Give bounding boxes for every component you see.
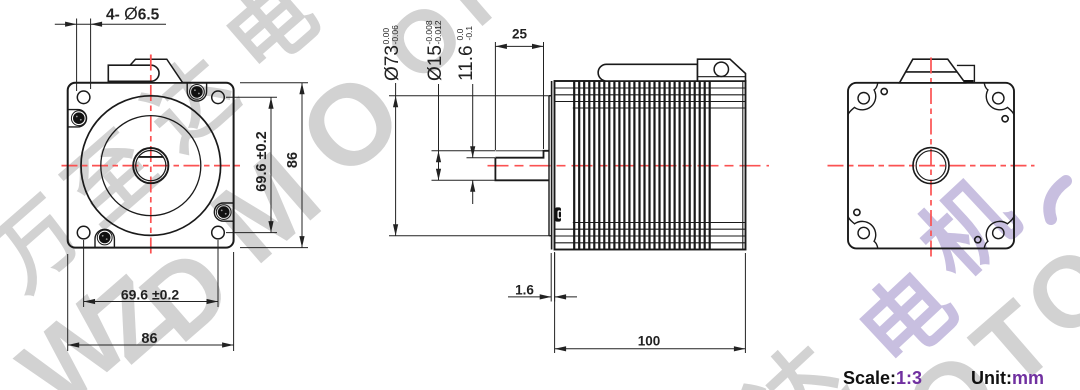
watermark purple curve fragment	[1049, 181, 1066, 219]
dim 69.6 right line	[270, 97, 272, 232]
svg-text:-0.012: -0.012	[433, 20, 443, 44]
dim D73 line	[395, 83, 397, 236]
side dimension arrows	[393, 44, 745, 352]
dim 1.6 extension lines	[550, 253, 552, 302]
rear connector seam	[906, 71, 957, 73]
watermark WZD and TOO letters	[0, 224, 1080, 390]
dim 11.6 extension line	[467, 157, 496, 159]
dim 4-D6.5 line	[55, 23, 166, 25]
shaft silhouette line behind flat	[495, 150, 543, 152]
rear screw bottom-left	[854, 209, 860, 215]
cooling ribs	[574, 81, 710, 250]
connector hole	[714, 62, 728, 76]
svg-text:100: 100	[638, 334, 661, 349]
dim 86 right extension lines	[240, 82, 308, 84]
rear view centerlines	[828, 58, 1035, 259]
screw top-right	[190, 85, 205, 100]
corner pocket top-left	[848, 83, 878, 115]
dim 86 bottom line	[68, 344, 234, 346]
centerline horizontal front	[62, 165, 241, 167]
connector bracket front	[129, 59, 182, 83]
front dimension texts	[106, 4, 301, 348]
svg-text:86: 86	[141, 331, 157, 347]
screw pocket bottom-left	[95, 229, 114, 247]
dim 25 extension lines	[494, 42, 496, 150]
mounting hole bottom-left	[77, 226, 90, 239]
pilot boss face	[549, 96, 552, 236]
svg-text:Ø73: Ø73	[382, 45, 403, 81]
svg-text:1.6: 1.6	[515, 283, 534, 298]
rear screw bottom-right	[975, 237, 981, 243]
dim 69.6 bottom extension lines	[83, 240, 85, 307]
dim 25 line	[495, 45, 543, 47]
flange plate	[551, 81, 553, 250]
dim text 11.6	[455, 26, 477, 81]
corner pocket top-right	[984, 83, 1014, 115]
rear screw top-left	[881, 88, 887, 94]
svg-text:4- Ø6.5: 4- Ø6.5	[106, 4, 160, 24]
svg-text:69.6 ±0.2: 69.6 ±0.2	[254, 131, 270, 191]
mounting hole top-left	[77, 91, 90, 104]
scale and unit labels	[843, 368, 1044, 388]
front view centerlines	[62, 55, 241, 258]
screw pocket top-left	[68, 110, 87, 127]
svg-text:11.6: 11.6	[456, 45, 477, 81]
centerline vertical front	[150, 55, 152, 258]
screw top-left	[71, 111, 86, 126]
screw pocket top-right	[187, 83, 206, 101]
front dimension arrows	[65, 22, 305, 348]
svg-text:Unit:mm: Unit:mm	[971, 368, 1044, 388]
dim 100 line	[555, 348, 746, 350]
body band lines	[555, 81, 746, 250]
wire clip on flange	[555, 207, 561, 221]
watermark chinese characters gray row	[0, 0, 335, 309]
dim D73 extension lines	[389, 95, 551, 97]
centerline horizontal side	[488, 165, 770, 167]
front flange square	[68, 83, 234, 248]
screw bottom-right	[216, 205, 231, 220]
connector box side	[698, 59, 746, 81]
rear connector trapezoid	[900, 59, 966, 83]
connector tube side	[598, 64, 697, 81]
watermark purple characters dian ji	[841, 163, 1036, 388]
dim D15 line	[438, 84, 440, 180]
mounting hole bottom-right	[212, 226, 225, 239]
connector tube front	[108, 65, 159, 81]
svg-text:Ø15: Ø15	[425, 45, 446, 81]
dim 100 extension lines	[554, 252, 556, 353]
rear screw top-right	[1002, 116, 1008, 122]
centerline vertical rear	[930, 58, 932, 259]
dim text D73	[381, 25, 403, 81]
watermark OR letters top	[366, 0, 539, 101]
shaft outer circle	[133, 148, 168, 183]
screw bottom-left	[97, 230, 112, 245]
side view dimensions	[389, 42, 745, 353]
screw pocket bottom-right	[214, 203, 233, 221]
rear connector tab	[957, 65, 975, 82]
dim text D15	[424, 20, 446, 81]
dim D15 extension lines	[432, 150, 496, 152]
shaft side profile	[495, 151, 549, 181]
svg-text:Scale:1:3: Scale:1:3	[843, 368, 922, 388]
svg-text:86: 86	[285, 152, 301, 168]
rear hole bottom-left	[858, 227, 869, 238]
rear hole top-left	[858, 93, 869, 104]
dim 86 bottom extension lines	[67, 254, 69, 351]
motor body outline	[555, 81, 746, 250]
svg-text:-0.1: -0.1	[464, 26, 474, 41]
dim 4-D6.5 extension lines	[76, 19, 78, 92]
corner pocket bottom-right	[984, 216, 1014, 248]
rear cover square	[848, 83, 1014, 249]
centerline overlay over connectors	[151, 55, 931, 83]
dim 86 right line	[301, 83, 303, 248]
corner pocket bottom-left	[848, 216, 878, 248]
shaft circle D15	[136, 151, 166, 181]
watermark MO large letters	[189, 48, 427, 287]
svg-text:69.6 ±0.2: 69.6 ±0.2	[121, 287, 179, 303]
centerline horizontal rear	[828, 165, 1035, 167]
rear hole bottom-right	[993, 227, 1004, 238]
mounting hole top-right	[212, 91, 225, 104]
dim 11.6 line	[472, 84, 474, 158]
rear hole top-right	[993, 93, 1004, 104]
dim 69.6 right extension lines	[226, 96, 277, 98]
boss circle D73	[81, 96, 221, 236]
rear center boss inner	[916, 151, 946, 181]
svg-text:25: 25	[512, 27, 528, 42]
shaft flat chord	[138, 156, 163, 158]
dim 69.6 bottom line	[84, 301, 218, 303]
front view dimensions	[55, 19, 308, 352]
side dimension texts	[381, 20, 660, 348]
bearing housing circle	[101, 116, 201, 216]
dim 1.6 line	[508, 296, 551, 298]
watermark da character bottom	[731, 328, 865, 390]
rear center boss outer	[913, 148, 949, 184]
svg-text:-0.06: -0.06	[390, 25, 400, 45]
